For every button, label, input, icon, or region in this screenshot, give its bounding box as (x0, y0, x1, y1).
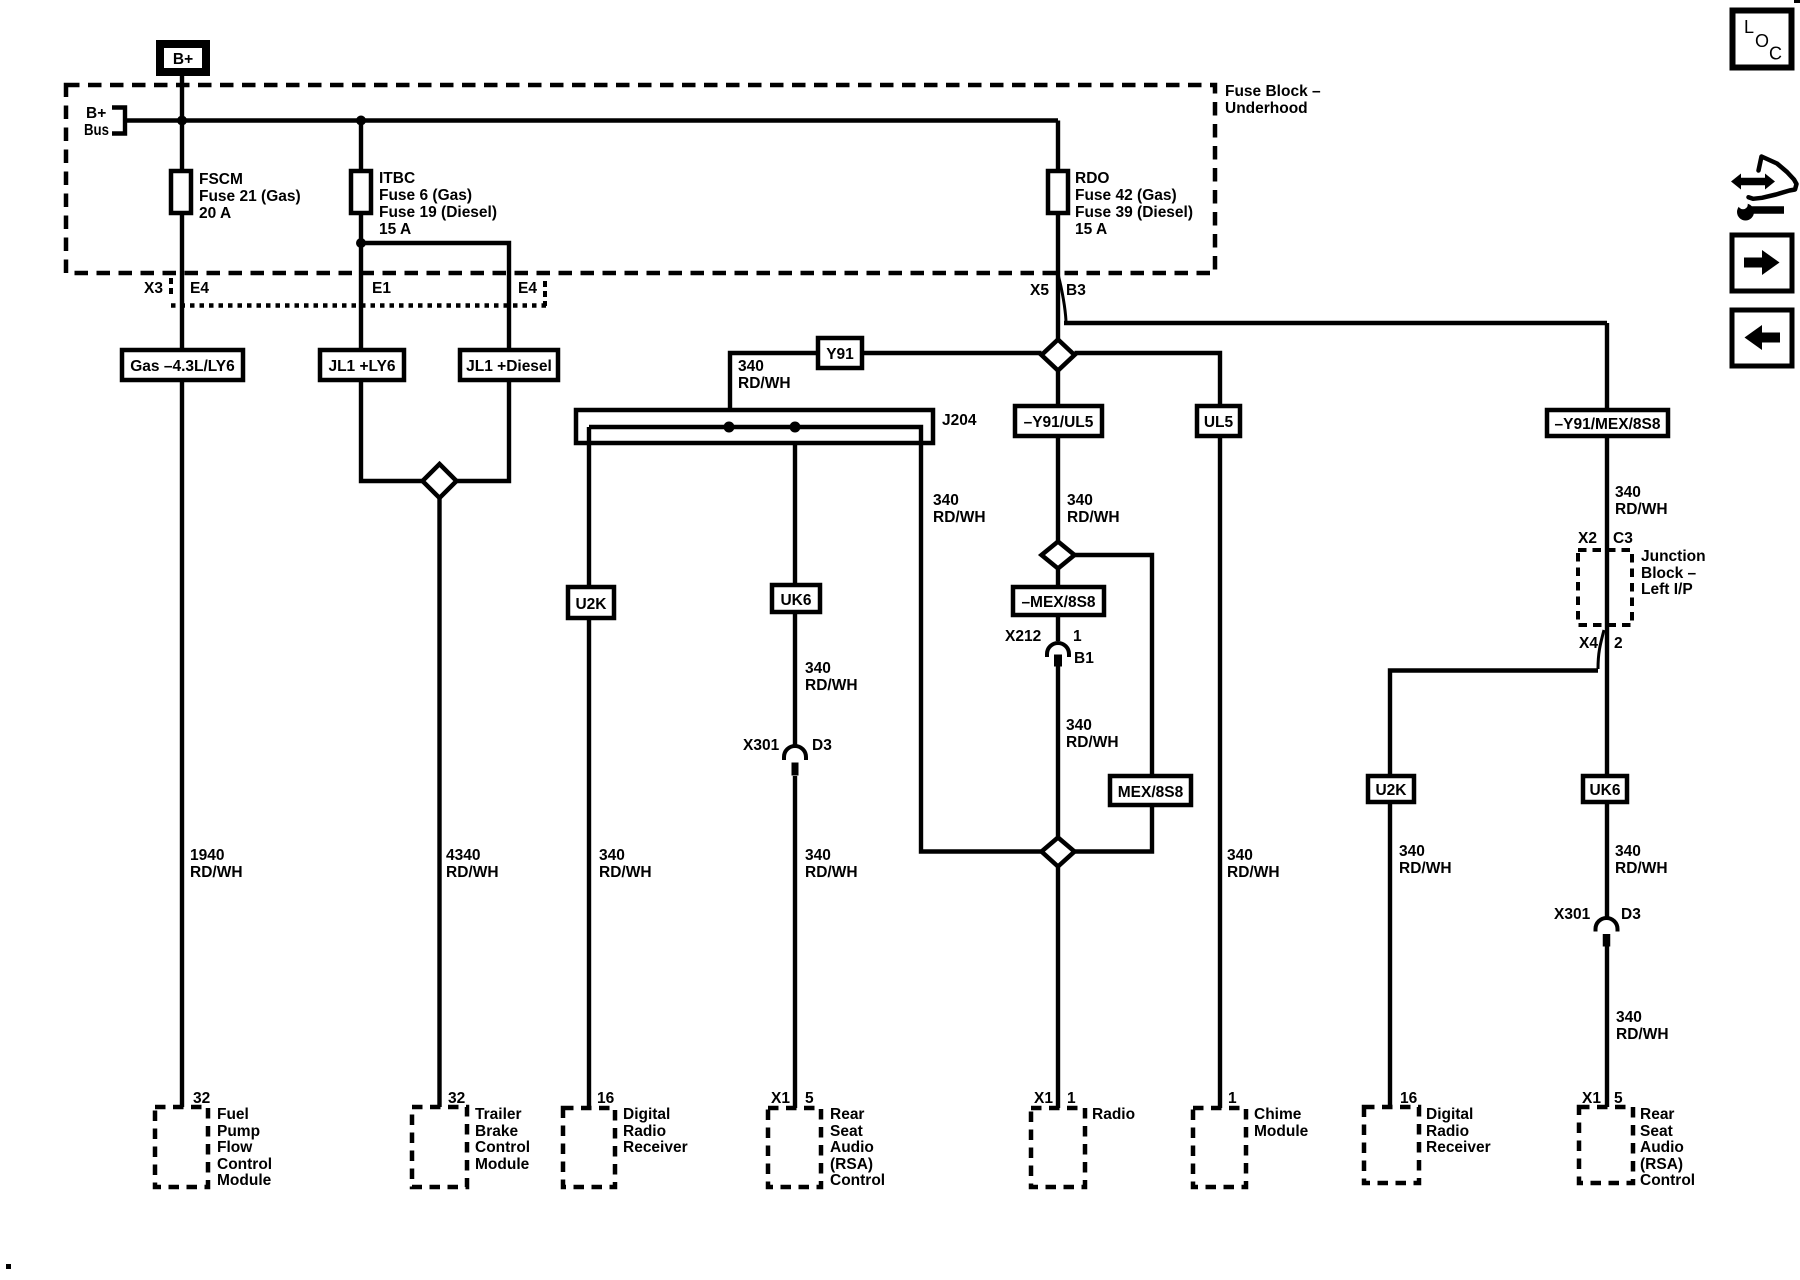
svg-text:D3: D3 (812, 737, 832, 754)
page corner mark top right (1794, 0, 1800, 3)
svg-text:Audio: Audio (1640, 1139, 1684, 1156)
svg-text:Rear: Rear (830, 1106, 864, 1123)
svg-text:–Y91/MEX/8S8: –Y91/MEX/8S8 (1555, 416, 1661, 433)
svg-text:B+: B+ (86, 105, 106, 122)
node box Gas -4.3L/LY6 (122, 350, 243, 380)
X301 right male terminal stub D3 (1603, 934, 1611, 947)
junction dot bus/ITBC (356, 116, 366, 126)
svg-text:340: 340 (1615, 843, 1641, 860)
connector X301 half circle (784, 746, 806, 760)
svg-text:Control: Control (830, 1172, 885, 1189)
svg-text:UK6: UK6 (780, 592, 811, 609)
svg-text:X301: X301 (1554, 906, 1591, 923)
svg-text:Trailer: Trailer (475, 1106, 522, 1123)
component box Digital Radio Receiver right (1364, 1107, 1419, 1183)
svg-text:RD/WH: RD/WH (1227, 864, 1280, 881)
J204 left leg inside (587, 427, 591, 443)
svg-text:Fuse 39 (Diesel): Fuse 39 (Diesel) (1075, 204, 1193, 221)
svg-text:RD/WH: RD/WH (1067, 509, 1120, 526)
svg-text:RD/WH: RD/WH (1066, 734, 1119, 751)
svg-text:340: 340 (805, 660, 831, 677)
svg-text:J204: J204 (942, 412, 977, 429)
svg-text:Module: Module (217, 1172, 272, 1189)
svg-text:ITBC: ITBC (379, 170, 415, 187)
svg-text:2: 2 (1614, 635, 1623, 652)
svg-text:Chime: Chime (1254, 1106, 1302, 1123)
node box Y91 (818, 338, 862, 368)
svg-text:20 A: 20 A (199, 205, 231, 222)
svg-text:340: 340 (1615, 484, 1641, 501)
svg-text:RD/WH: RD/WH (805, 677, 858, 694)
splice diamond JL1 (423, 464, 457, 498)
svg-text:X212: X212 (1005, 628, 1041, 645)
svg-text:–MEX/8S8: –MEX/8S8 (1021, 594, 1095, 611)
node box JL1 +LY6 (320, 350, 404, 380)
svg-text:32: 32 (448, 1090, 465, 1107)
X301 male terminal stub D3 (792, 763, 799, 776)
svg-text:O: O (1755, 31, 1769, 51)
svg-text:340: 340 (1066, 717, 1092, 734)
svg-text:Fuel: Fuel (217, 1106, 249, 1123)
svg-text:E4: E4 (190, 280, 209, 297)
svg-text:32: 32 (193, 1090, 210, 1107)
svg-text:Y91: Y91 (826, 346, 854, 363)
LOC reference box (1733, 11, 1792, 68)
fuse RDO Fuse 42/39 (1048, 171, 1068, 213)
svg-text:Digital: Digital (1426, 1106, 1473, 1123)
svg-text:Control: Control (475, 1139, 530, 1156)
component box Rear Seat Audio (RSA) Control (768, 1108, 821, 1187)
page mark bottom left (6, 1264, 11, 1269)
svg-text:C: C (1769, 44, 1782, 64)
svg-text:Audio: Audio (830, 1139, 874, 1156)
splice diamond 2 (1042, 542, 1075, 569)
svg-text:Rear: Rear (1640, 1106, 1674, 1123)
node box UL5 (1197, 406, 1240, 436)
svg-text:Fuse 21 (Gas): Fuse 21 (Gas) (199, 188, 301, 205)
svg-text:Gas –4.3L/LY6: Gas –4.3L/LY6 (130, 358, 235, 375)
B+ power terminal box (160, 44, 206, 72)
svg-text:D3: D3 (1621, 906, 1641, 923)
connector tick E4 right (543, 281, 547, 306)
wire splice diamond to Trailer Brake Control Module (4340 RD/WH) (437, 498, 441, 1107)
svg-text:5: 5 (1614, 1090, 1623, 1107)
svg-text:U2K: U2K (575, 596, 607, 613)
wire top horizontal to -Y91/MEX/8S8 (340 RD/WH) (1064, 321, 1607, 325)
svg-text:16: 16 (597, 1090, 615, 1107)
node box UK6 (772, 585, 820, 612)
svg-text:Underhood: Underhood (1225, 100, 1308, 117)
wire UK6 down to X301 right (1605, 802, 1609, 918)
svg-text:X1: X1 (1582, 1090, 1601, 1107)
svg-text:Flow: Flow (217, 1139, 253, 1156)
splice diamond 1 (1042, 340, 1075, 371)
svg-text:RD/WH: RD/WH (1399, 860, 1452, 877)
svg-text:JL1 +LY6: JL1 +LY6 (328, 358, 395, 375)
svg-text:340: 340 (805, 847, 831, 864)
splice pack J204 bus bar (589, 427, 921, 443)
svg-text:B1: B1 (1074, 650, 1094, 667)
svg-text:340: 340 (599, 847, 625, 864)
svg-text:340: 340 (1067, 492, 1093, 509)
svg-text:4340: 4340 (446, 847, 480, 864)
svg-text:U2K: U2K (1375, 782, 1407, 799)
connector X212 half circle (1047, 643, 1069, 657)
svg-text:UK6: UK6 (1589, 782, 1620, 799)
svg-text:E1: E1 (372, 280, 391, 297)
fuse block underhood dashed box (66, 85, 1215, 273)
wire diamond2 right branch through MEX/8S8 to diamond3 (1075, 555, 1153, 852)
svg-text:1940: 1940 (190, 847, 224, 864)
svg-text:Receiver: Receiver (1426, 1139, 1491, 1156)
arrow box right (1732, 235, 1792, 291)
node box U2K (568, 587, 614, 618)
junction dot J204/Y91 leg (724, 422, 735, 433)
svg-text:X301: X301 (743, 737, 780, 754)
svg-text:1: 1 (1073, 628, 1082, 645)
wire right main vertical through junction block to UK6 (1605, 323, 1609, 776)
svg-text:340: 340 (738, 358, 764, 375)
wire ITBC fuse branch down to JL1 +LY6 and diamond (361, 121, 423, 482)
svg-text:L: L (1744, 17, 1754, 37)
svg-text:Digital: Digital (623, 1106, 670, 1123)
svg-text:RD/WH: RD/WH (738, 375, 791, 392)
arrow box left (1732, 310, 1792, 366)
svg-text:Radio: Radio (1092, 1106, 1135, 1123)
component box Rear Seat Audio (RSA) Control right (1579, 1107, 1633, 1183)
wire B+ feed to Fuel Pump Flow Control Module (1940 RD/WH) (180, 74, 184, 1107)
wire J204 right leg to diamond3 (340 RD/WH) (921, 427, 1042, 852)
svg-text:–Y91/UL5: –Y91/UL5 (1024, 414, 1094, 431)
svg-text:RD/WH: RD/WH (446, 864, 499, 881)
svg-text:B3: B3 (1066, 282, 1086, 299)
svg-text:5: 5 (805, 1090, 814, 1107)
svg-text:(RSA): (RSA) (1640, 1156, 1683, 1173)
svg-text:RD/WH: RD/WH (933, 509, 986, 526)
svg-text:X1: X1 (1034, 1090, 1053, 1107)
wire diamond3 down to Radio (1056, 867, 1060, 1109)
svg-text:Junction: Junction (1641, 548, 1706, 565)
component box Fuel Pump Flow Control Module (155, 1107, 208, 1187)
svg-text:X2: X2 (1578, 530, 1597, 547)
wire X301 down to Rear Seat Audio (340 RD/WH) (793, 776, 797, 1108)
svg-text:16: 16 (1400, 1090, 1418, 1107)
wire branch to JL1 +Diesel (361, 243, 509, 481)
node box -Y91/UL5 (1015, 406, 1102, 436)
fuse ITBC Fuse 6/19 (351, 171, 371, 213)
svg-text:JL1 +Diesel: JL1 +Diesel (466, 358, 552, 375)
connector X301 right half circle (1596, 918, 1618, 931)
wire J204 left leg to U2K / Digital Radio Receiver (340 RD/WH) (587, 427, 591, 1108)
svg-text:Seat: Seat (830, 1123, 863, 1140)
svg-text:Pump: Pump (217, 1123, 260, 1140)
node box U2K right (1368, 776, 1414, 802)
svg-text:Fuse 6 (Gas): Fuse 6 (Gas) (379, 187, 472, 204)
connector dotted line E4-E1-E4 (171, 303, 546, 308)
svg-text:RD/WH: RD/WH (805, 864, 858, 881)
junction dot bus/FSCM (177, 116, 187, 126)
X212 male terminal stub B1 (1054, 655, 1062, 667)
svg-text:Radio: Radio (1426, 1123, 1469, 1140)
node box JL1 +Diesel (460, 350, 558, 380)
node box UK6 right (1583, 776, 1627, 802)
wire diamond2 down through -MEX/8S8 to X212 (1056, 569, 1060, 642)
wire jog at X5/B3 connector (1058, 274, 1066, 321)
svg-text:RD/WH: RD/WH (1615, 860, 1668, 877)
connector tick X3/E4 (169, 278, 173, 298)
svg-text:RD/WH: RD/WH (190, 864, 243, 881)
svg-text:RDO: RDO (1075, 170, 1109, 187)
wire B+ Bus horizontal (125, 118, 1058, 122)
tools/tips icon freehand outline (1749, 157, 1797, 199)
wire jog at X4/2 connector (1598, 630, 1604, 669)
svg-text:B+: B+ (173, 51, 193, 68)
tools/tips icon wrench (1737, 204, 1754, 221)
splice pack J204 outer box (576, 410, 933, 443)
svg-text:Fuse 42 (Gas): Fuse 42 (Gas) (1075, 187, 1177, 204)
junction block left I/P dashed box (1578, 550, 1632, 625)
svg-text:X1: X1 (771, 1090, 790, 1107)
component box Radio (1031, 1108, 1085, 1187)
svg-text:X4: X4 (1579, 635, 1598, 652)
svg-text:Module: Module (475, 1156, 530, 1173)
svg-text:15 A: 15 A (379, 221, 411, 238)
svg-text:E4: E4 (518, 280, 537, 297)
svg-text:RD/WH: RD/WH (1616, 1026, 1669, 1043)
svg-text:X3: X3 (144, 280, 163, 297)
svg-text:Bus: Bus (84, 122, 109, 139)
svg-text:MEX/8S8: MEX/8S8 (1118, 784, 1184, 801)
svg-text:Block –: Block – (1641, 565, 1697, 582)
svg-text:340: 340 (1227, 847, 1253, 864)
svg-text:RD/WH: RD/WH (1615, 501, 1668, 518)
wire branch to U2K / Digital Radio Receiver right (340 RD/WH) (1390, 671, 1598, 1108)
svg-text:340: 340 (933, 492, 959, 509)
node box -MEX/8S8 (1013, 587, 1104, 615)
svg-text:15 A: 15 A (1075, 221, 1107, 238)
splice diamond 3 (1042, 838, 1075, 867)
svg-text:Control: Control (217, 1156, 272, 1173)
wire X301 right down to Rear Seat Audio right (340 RD/WH) (1605, 946, 1609, 1107)
svg-text:Left I/P: Left I/P (1641, 581, 1693, 598)
svg-text:Brake: Brake (475, 1123, 518, 1140)
svg-text:Radio: Radio (623, 1123, 666, 1140)
wire Y91 branch horizontal (730, 353, 1042, 427)
B+ Bus bracket (112, 108, 125, 134)
svg-text:Module: Module (1254, 1123, 1309, 1140)
svg-text:340: 340 (1616, 1009, 1642, 1026)
svg-text:X5: X5 (1030, 282, 1049, 299)
wire J204 middle leg through UK6 to X301 (793, 427, 797, 746)
junction dot J204/UK6 leg (790, 422, 801, 433)
node box -Y91/MEX/8S8 (1547, 410, 1668, 436)
svg-text:Fuse Block –: Fuse Block – (1225, 83, 1321, 100)
svg-text:UL5: UL5 (1204, 414, 1234, 431)
wire RDO fuse output down to splice diamond (1056, 121, 1060, 340)
svg-text:RD/WH: RD/WH (599, 864, 652, 881)
svg-text:Receiver: Receiver (623, 1139, 688, 1156)
svg-text:340: 340 (1399, 843, 1425, 860)
svg-text:1: 1 (1228, 1090, 1237, 1107)
svg-text:Seat: Seat (1640, 1123, 1673, 1140)
component box Trailer Brake Control Module (412, 1107, 467, 1187)
node box MEX/8S8 (1110, 776, 1191, 805)
junction dot ITBC branch (356, 238, 366, 248)
wire B1 down to diamond3 (340 RD/WH) (1056, 666, 1060, 838)
svg-text:(RSA): (RSA) (830, 1156, 873, 1173)
component box Digital Radio Receiver (563, 1108, 615, 1187)
svg-text:Control: Control (1640, 1172, 1695, 1189)
svg-text:Fuse 19 (Diesel): Fuse 19 (Diesel) (379, 204, 497, 221)
component box Chime Module (1193, 1108, 1246, 1187)
svg-text:1: 1 (1067, 1090, 1076, 1107)
svg-text:C3: C3 (1613, 530, 1633, 547)
wire diamond right to UL5 / Chime Module (340 RD/WH) (1075, 353, 1221, 1108)
fuse FSCM Fuse 21 (171, 171, 191, 213)
wire diamond1 down through -Y91/UL5 to diamond2 (1056, 371, 1060, 543)
tools/tips icon double arrow (1740, 178, 1766, 186)
svg-text:FSCM: FSCM (199, 171, 243, 188)
